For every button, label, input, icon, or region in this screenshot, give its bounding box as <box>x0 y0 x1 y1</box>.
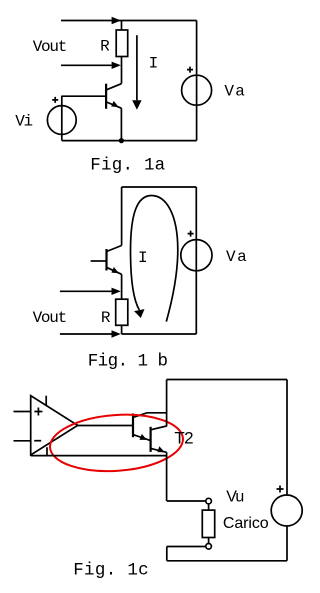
svg-text:R: R <box>101 309 111 327</box>
wire emitter lead fig1b <box>121 274 123 299</box>
wire collector column fig1c <box>166 380 168 427</box>
voltage source (fig1c) <box>271 380 302 561</box>
transistor Q2 (fig1b) <box>91 246 122 275</box>
svg-text:Fig. 1 b: Fig. 1 b <box>88 352 168 372</box>
svg-text:Vout: Vout <box>33 38 68 56</box>
wire bottom rail fig1c <box>167 560 287 562</box>
voltage source Va (fig1a) <box>182 21 212 141</box>
wire output arrow 2 (fig1a) <box>61 62 121 69</box>
current arrow I (fig1a) <box>132 35 141 110</box>
svg-text:Va: Va <box>226 248 247 266</box>
svg-text:T2: T2 <box>174 429 193 448</box>
wire bottom rail fig1a <box>62 140 197 142</box>
wire output arrow 2 / bottom rail fig1b <box>60 330 196 337</box>
svg-text:R: R <box>100 37 110 55</box>
op-amp U1 <box>14 396 78 455</box>
svg-text:Vu: Vu <box>226 488 244 505</box>
resistor R2 (fig1b) <box>116 299 128 334</box>
transistor Q1 (fig1a) <box>62 84 122 141</box>
wire op-amp output <box>78 425 133 427</box>
wire collector column fig1b <box>121 187 123 246</box>
svg-text:Fig. 1a: Fig. 1a <box>90 156 165 176</box>
svg-text:Fig. 1c: Fig. 1c <box>73 561 149 581</box>
svg-text:Carico: Carico <box>223 515 269 532</box>
transistor T2 <box>151 426 167 452</box>
wire top rail fig1b <box>122 186 197 188</box>
wire feedback (fig1c) <box>31 447 167 455</box>
transistor Q3 driver (fig1c) <box>133 413 167 441</box>
current loop I (fig1b) <box>131 196 178 322</box>
svg-text:Va: Va <box>224 83 245 101</box>
wire top rail fig1c <box>167 379 287 381</box>
svg-text:Vout: Vout <box>33 309 68 327</box>
wire top rail fig1a <box>61 20 197 22</box>
load resistor Carico <box>167 498 215 560</box>
junction dot fig1a <box>119 138 124 143</box>
wire emitter column fig1c <box>166 452 168 501</box>
highlight ellipse (red) <box>48 410 185 475</box>
svg-text:Vi: Vi <box>15 112 33 130</box>
svg-text:I: I <box>138 249 148 267</box>
wire output arrow 1 (fig1b) <box>60 288 121 295</box>
resistor R1 (fig1a) <box>116 21 128 84</box>
arrowhead on top rail (output terminal arrow) <box>112 17 121 24</box>
svg-text:I: I <box>149 55 159 73</box>
voltage source Va (fig1b) <box>181 187 212 334</box>
voltage source Vi <box>47 96 76 141</box>
